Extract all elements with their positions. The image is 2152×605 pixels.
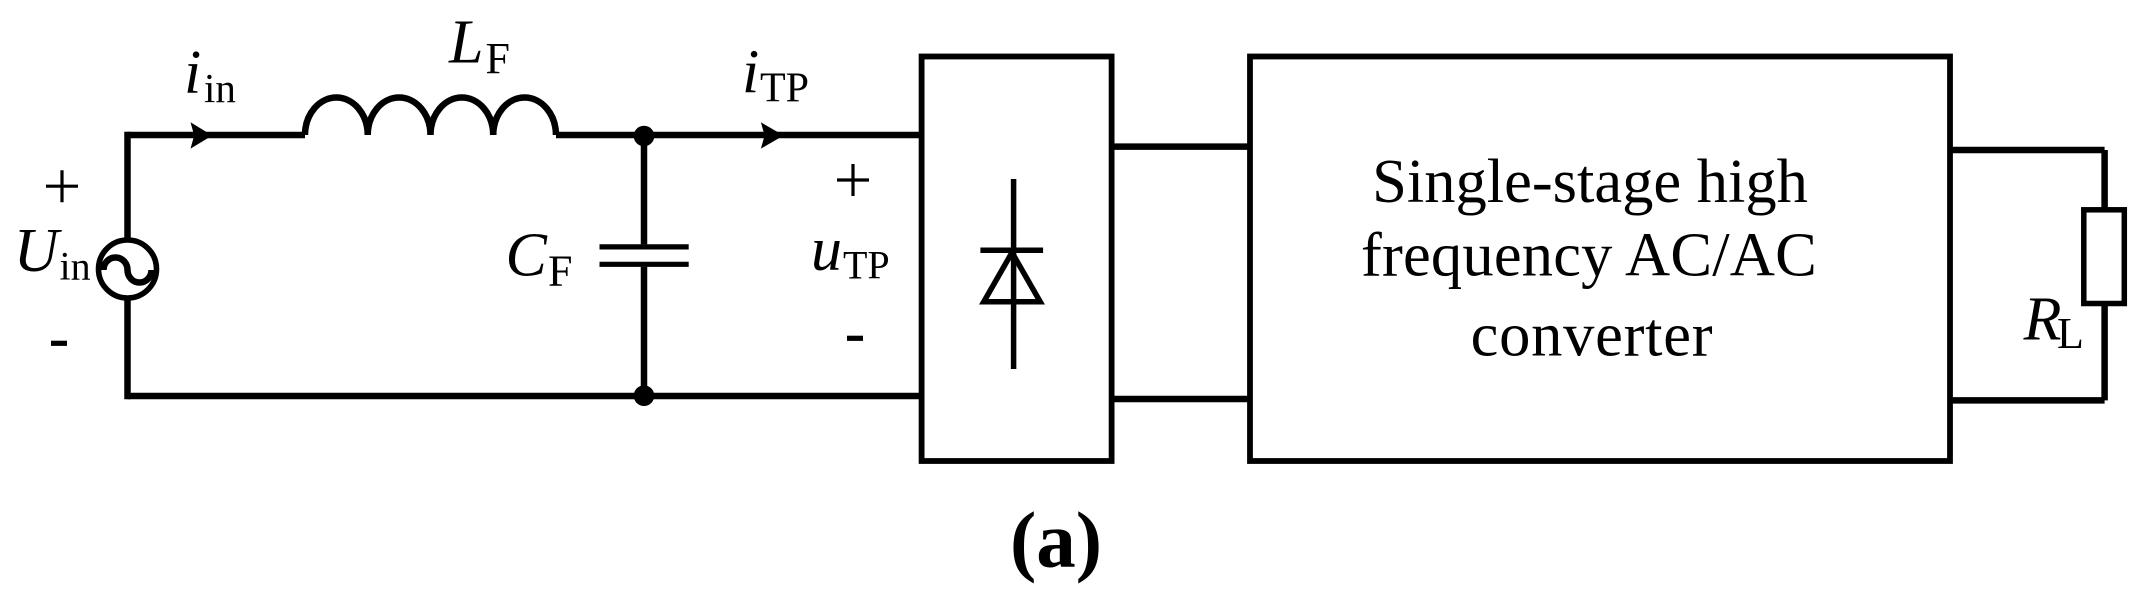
svg-text:F: F [486, 34, 510, 83]
svg-text:L: L [2057, 309, 2084, 358]
svg-text:in: in [204, 65, 236, 111]
svg-text:converter: converter [1471, 300, 1714, 370]
svg-text:(a): (a) [1010, 498, 1102, 585]
svg-text:F: F [548, 247, 572, 296]
svg-text:U: U [14, 217, 63, 285]
svg-text:i: i [742, 38, 759, 106]
svg-text:u: u [811, 216, 842, 284]
svg-text:TP: TP [760, 66, 809, 112]
svg-text:C: C [506, 222, 548, 290]
svg-text:Single-stage high: Single-stage high [1372, 146, 1808, 216]
svg-text:R: R [2023, 286, 2062, 354]
svg-text:TP: TP [843, 243, 890, 288]
svg-text:L: L [448, 9, 483, 77]
svg-text:i: i [184, 39, 201, 107]
svg-text:in: in [60, 244, 91, 289]
svg-text:frequency AC/AC: frequency AC/AC [1361, 220, 1817, 290]
